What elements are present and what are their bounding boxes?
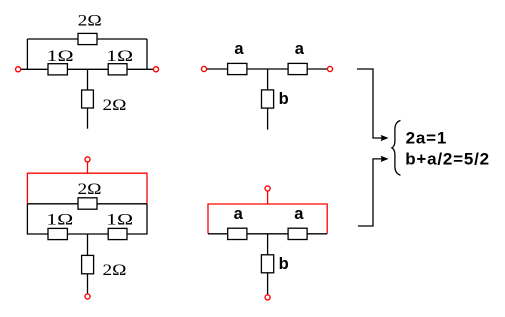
svg-text:1Ω: 1Ω (47, 48, 74, 65)
resistor a right (circuit 4) (288, 228, 307, 239)
resistor a left (circuit 4) (228, 228, 247, 239)
node bottom terminal (circuit 4) (265, 295, 270, 300)
wire junction drop (circuit 2) (267, 69, 269, 90)
svg-text:1Ω: 1Ω (106, 48, 133, 65)
node left terminal (circuit 1) (16, 67, 21, 72)
wire left riser (circuit 1) (26, 39, 28, 69)
wire bottom bracket (358, 159, 382, 226)
node top terminal (circuit 3) (85, 157, 90, 162)
resistor a left (circuit 2) (228, 63, 247, 74)
wire right riser (circuit 1) (146, 39, 148, 69)
svg-text:1Ω: 1Ω (106, 211, 133, 228)
node right terminal (circuit 2) (327, 66, 332, 71)
svg-text:a: a (294, 205, 304, 223)
resistor b vertical (circuit 4) (261, 255, 273, 273)
arrowhead top (381, 135, 389, 141)
resistor 2ohm on shared edge (circuit 3) (78, 198, 97, 209)
svg-text:2a=1: 2a=1 (406, 129, 448, 148)
svg-text:b+a/2=5/2: b+a/2=5/2 (405, 150, 490, 169)
node bottom terminal (circuit 3) (85, 294, 90, 299)
svg-text:a: a (295, 40, 305, 58)
wire bottom stub (circuit 1) (87, 108, 89, 129)
wire junction drop (circuit 3) (87, 234, 89, 255)
node left terminal (circuit 2) (201, 66, 206, 71)
wire bottom lead (circuit 3) (87, 274, 89, 294)
svg-text:2Ω: 2Ω (103, 262, 127, 279)
wire junction drop (circuit 1) (87, 69, 89, 90)
wire main horizontal (circuit 4) (208, 233, 327, 235)
svg-text:a: a (234, 205, 244, 223)
wire bottom stub (circuit 2) (267, 108, 269, 130)
svg-text:2Ω: 2Ω (78, 13, 102, 30)
wire main horizontal (circuit 1) (21, 68, 153, 70)
svg-text:2Ω: 2Ω (78, 181, 102, 198)
node right terminal (circuit 1) (153, 67, 158, 72)
resistor 1ohm right (circuit 1) (108, 64, 127, 75)
resistor 2ohm vertical (circuit 1) (82, 90, 94, 108)
resistor 1ohm left (circuit 3) (48, 228, 67, 239)
wire shared horizontal (circuit 3) (27, 203, 147, 205)
wire junction drop (circuit 4) (267, 234, 269, 255)
wire red terminal lead (circuit 4) (267, 191, 269, 204)
resistor 2ohm vertical (circuit 3) (82, 255, 94, 273)
resistor 1ohm right (circuit 3) (108, 228, 127, 239)
node top terminal (circuit 4) (265, 186, 270, 191)
svg-text:2Ω: 2Ω (103, 97, 127, 114)
wire top branch (circuit 1) (27, 38, 147, 40)
resistor a right (circuit 2) (288, 63, 307, 74)
resistor 1ohm left (circuit 1) (48, 64, 67, 75)
wire red loop (circuit 4) (208, 204, 327, 234)
svg-text:1Ω: 1Ω (46, 211, 73, 228)
wire red terminal lead (circuit 3) (87, 162, 89, 173)
wire red loop (circuit 3) (27, 173, 147, 203)
wire black loop (circuit 3) (27, 204, 147, 234)
svg-text:b: b (279, 255, 289, 273)
resistor b vertical (circuit 2) (262, 90, 274, 108)
arrowhead bottom (381, 156, 389, 162)
wire main horizontal (circuit 2) (207, 68, 327, 70)
curly brace (392, 120, 401, 175)
svg-text:a: a (234, 40, 244, 58)
wire bottom lead (circuit 4) (267, 273, 269, 295)
resistor 2ohm top (circuit 1) (78, 33, 97, 44)
svg-text:b: b (279, 90, 289, 108)
wire top bracket (357, 69, 382, 138)
